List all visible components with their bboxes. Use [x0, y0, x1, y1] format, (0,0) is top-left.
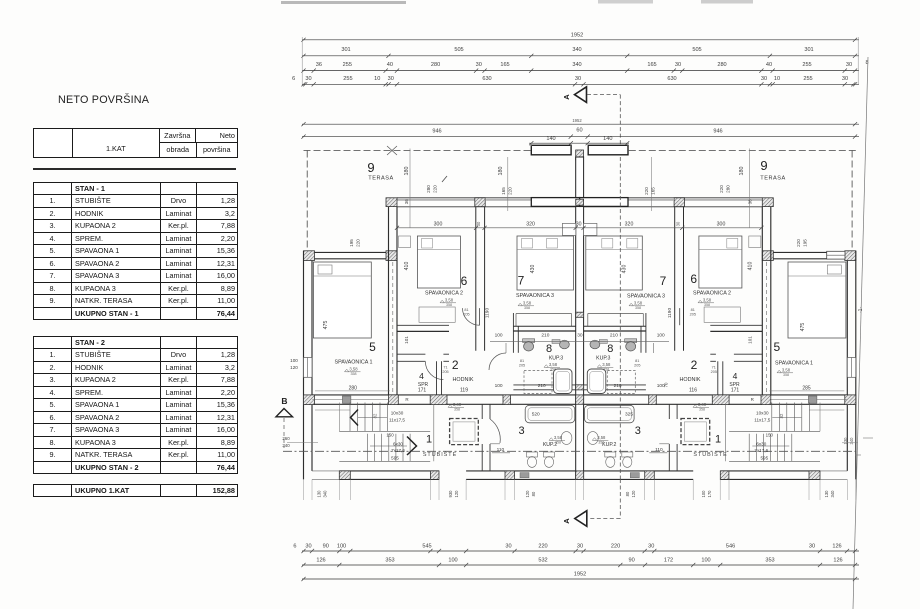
svg-text:205: 205 — [711, 370, 717, 374]
sheet fold line right — [853, 57, 868, 609]
party wall hatch at top wall junction — [576, 199, 584, 205]
svg-text:100: 100 — [701, 490, 706, 498]
svg-text:10: 10 — [374, 76, 380, 82]
svg-text:340: 340 — [849, 437, 854, 445]
chimney wing wall (left) — [531, 145, 571, 155]
svg-text:SPAVAONICA 1: SPAVAONICA 1 — [775, 361, 813, 367]
svg-text:TERASA: TERASA — [760, 176, 785, 182]
svg-text:HODNIK: HODNIK — [453, 377, 474, 383]
svg-text:520: 520 — [532, 412, 540, 418]
svg-text:220: 220 — [433, 185, 438, 193]
svg-text:205: 205 — [442, 370, 448, 374]
svg-text:280: 280 — [349, 385, 358, 391]
svg-text:1952: 1952 — [574, 571, 586, 577]
svg-text:946: 946 — [432, 129, 441, 135]
svg-text:80: 80 — [625, 491, 630, 496]
svg-text:R: R — [405, 397, 409, 402]
dashed centerline in room5/room6 wall — [392, 262, 394, 393]
svg-text:9: 9 — [367, 160, 374, 175]
svg-text:SPAVAONICA 3: SPAVAONICA 3 — [516, 293, 554, 299]
svg-text:120: 120 — [454, 490, 459, 498]
svg-text:8: 8 — [546, 343, 552, 355]
svg-text:30: 30 — [809, 543, 815, 549]
table STAN-1 — [33, 182, 238, 321]
svg-text:3,58: 3,58 — [634, 301, 643, 306]
svg-text:81: 81 — [464, 308, 468, 312]
svg-text:30: 30 — [675, 221, 680, 226]
svg-text:30: 30 — [476, 62, 482, 68]
svg-text:100: 100 — [337, 543, 346, 549]
svg-text:1190: 1190 — [667, 308, 673, 319]
svg-text:172: 172 — [664, 558, 673, 564]
svg-text:36: 36 — [404, 199, 409, 204]
SPR door arc — [425, 362, 443, 380]
dim extension near chimney — [507, 157, 509, 211]
svg-text:1: 1 — [715, 434, 721, 446]
svg-text:358: 358 — [550, 368, 556, 372]
room5 top wall — [304, 251, 315, 261]
svg-text:HODNIK: HODNIK — [680, 377, 701, 383]
svg-text:120: 120 — [525, 490, 530, 498]
svg-text:30: 30 — [476, 221, 481, 226]
wall room6 bottom / hall — [397, 324, 449, 326]
svg-text:2: 2 — [691, 358, 698, 372]
svg-text:3,48: 3,48 — [698, 402, 707, 407]
svg-text:1952: 1952 — [572, 118, 582, 123]
svg-text:7: 7 — [518, 274, 525, 288]
svg-text:7: 7 — [660, 274, 667, 288]
svg-text:475: 475 — [323, 321, 329, 330]
svg-text:7x17,6: 7x17,6 — [391, 448, 405, 453]
svg-text:505: 505 — [454, 47, 463, 53]
svg-text:3,58: 3,58 — [602, 362, 611, 367]
svg-text:6: 6 — [461, 274, 468, 288]
svg-text:8: 8 — [607, 343, 613, 355]
svg-text:358: 358 — [635, 306, 641, 310]
mid wall across unit — [312, 394, 576, 396]
svg-text:340: 340 — [323, 490, 328, 498]
party wall between units — [576, 157, 584, 479]
svg-text:6: 6 — [293, 543, 296, 549]
svg-text:430: 430 — [530, 265, 536, 274]
svg-text:430: 430 — [621, 265, 627, 274]
svg-text:30: 30 — [388, 76, 394, 82]
table STAN-2 — [33, 336, 238, 475]
bedside table room6 — [399, 236, 411, 248]
svg-text:630: 630 — [667, 76, 676, 82]
svg-text:532: 532 — [538, 558, 547, 564]
svg-text:300: 300 — [434, 222, 443, 228]
svg-text:126: 126 — [833, 558, 842, 564]
svg-text:3,58: 3,58 — [554, 435, 563, 440]
svg-text:210: 210 — [538, 383, 546, 389]
svg-text:81: 81 — [520, 359, 524, 363]
svg-text:255: 255 — [343, 62, 352, 68]
svg-text:165: 165 — [650, 187, 655, 195]
svg-text:171: 171 — [418, 388, 427, 394]
svg-text:119: 119 — [460, 388, 468, 394]
svg-text:180: 180 — [404, 167, 410, 176]
svg-text:81: 81 — [691, 308, 695, 312]
svg-text:30: 30 — [505, 543, 511, 549]
table title — [58, 94, 149, 106]
chimney wing wall (right) — [588, 145, 628, 155]
svg-text:301: 301 — [804, 47, 813, 53]
svg-text:220: 220 — [611, 543, 620, 549]
svg-text:280: 280 — [717, 62, 726, 68]
svg-text:3: 3 — [518, 425, 524, 437]
KUP.2 bidet — [544, 452, 555, 457]
svg-text:220: 220 — [538, 543, 547, 549]
section marker A (top) — [575, 87, 587, 103]
shaft / void square (dashed) — [450, 419, 479, 445]
svg-text:595: 595 — [391, 456, 399, 461]
top dim row end verticals — [301, 37, 303, 85]
svg-text:30: 30 — [305, 76, 311, 82]
svg-text:6x30: 6x30 — [393, 442, 403, 447]
stair upper flight treads — [349, 403, 351, 432]
svg-text:505: 505 — [692, 47, 701, 53]
svg-text:195: 195 — [802, 239, 807, 247]
thick separator — [33, 168, 236, 170]
svg-text:90: 90 — [628, 558, 634, 564]
stair right boundary — [433, 404, 435, 461]
svg-text:946: 946 — [713, 129, 722, 135]
window mullion block (grey) in room5 bottom wall — [342, 396, 351, 403]
KUP.2 window ticks — [520, 473, 529, 478]
svg-text:165: 165 — [501, 187, 506, 195]
top wall pillar at room6/7 — [475, 198, 485, 207]
svg-text:410: 410 — [747, 262, 753, 271]
svg-text:358: 358 — [351, 372, 357, 376]
KUP.3 left wall — [512, 313, 514, 353]
svg-text:205: 205 — [690, 313, 696, 317]
svg-text:220: 220 — [644, 187, 649, 195]
svg-text:1952: 1952 — [571, 32, 583, 38]
svg-text:1190: 1190 — [485, 308, 491, 319]
svg-text:320: 320 — [526, 222, 535, 228]
top wall pillar at room5/6 — [386, 198, 397, 207]
table header — [33, 128, 238, 158]
svg-text:STUBIŠTE: STUBIŠTE — [693, 451, 727, 458]
svg-text:301: 301 — [341, 47, 350, 53]
svg-text:11x17,5: 11x17,5 — [389, 418, 405, 423]
bed room6 — [417, 236, 460, 288]
svg-text:SPAVAONICA 2: SPAVAONICA 2 — [693, 291, 731, 297]
svg-text:325: 325 — [625, 412, 633, 418]
svg-text:100: 100 — [495, 383, 503, 389]
svg-text:280: 280 — [431, 62, 440, 68]
svg-text:280: 280 — [725, 185, 730, 193]
landing edge — [315, 409, 350, 411]
svg-text:1: 1 — [426, 434, 432, 446]
svg-text:320: 320 — [625, 222, 634, 228]
svg-text:220: 220 — [356, 239, 361, 247]
svg-text:205: 205 — [634, 364, 640, 368]
level mark embellishments — [442, 302, 456, 304]
svg-text:205: 205 — [519, 364, 525, 368]
wall hall / SPR — [397, 353, 425, 355]
svg-text:10: 10 — [774, 76, 780, 82]
svg-text:70: 70 — [663, 382, 668, 387]
door arc into KUP.2 — [490, 419, 500, 443]
svg-text:SPAVAONICA 3: SPAVAONICA 3 — [627, 294, 665, 300]
bed room7 — [517, 236, 574, 290]
svg-text:71: 71 — [443, 366, 447, 370]
dim extension line through terrace (left) — [409, 149, 411, 228]
KUP.2 sink — [561, 432, 572, 445]
survey X mark on terrace line — [387, 146, 397, 155]
window in side wall — [304, 358, 313, 378]
KUP.3 sink — [560, 340, 570, 349]
svg-text:210: 210 — [541, 332, 549, 338]
svg-text:30: 30 — [575, 76, 581, 82]
svg-text:3,58: 3,58 — [549, 362, 558, 367]
svg-text:2: 2 — [452, 358, 459, 372]
svg-text:126: 126 — [832, 543, 841, 549]
top wall thick segment under chimney — [531, 198, 579, 207]
door arc into KUP.3 (hall side) — [489, 353, 506, 370]
svg-text:210: 210 — [614, 383, 622, 389]
svg-text:630: 630 — [482, 76, 491, 82]
svg-text:358: 358 — [603, 368, 609, 372]
svg-text:116: 116 — [689, 388, 697, 394]
KUP.3 bottom wall — [513, 384, 575, 386]
svg-text:100: 100 — [495, 332, 503, 338]
KUP.3 toilet — [523, 339, 535, 343]
svg-text:210: 210 — [610, 332, 618, 338]
svg-text:165: 165 — [647, 62, 656, 68]
svg-text:4: 4 — [733, 371, 738, 381]
dim extension lines below wall — [303, 479, 305, 500]
svg-text:255: 255 — [803, 76, 812, 82]
bottom exterior wall — [339, 470, 439, 472]
svg-text:40: 40 — [766, 62, 772, 68]
svg-text:30: 30 — [675, 62, 681, 68]
svg-text:SPAVAONICA 1: SPAVAONICA 1 — [334, 360, 372, 366]
svg-text:180: 180 — [498, 167, 504, 176]
svg-text:358: 358 — [704, 303, 710, 307]
svg-text:60: 60 — [576, 128, 582, 134]
section marker A (bottom) — [575, 511, 587, 527]
scan smudge top-left — [281, 1, 406, 4]
svg-text:3,58: 3,58 — [703, 298, 712, 303]
svg-text:100: 100 — [290, 358, 298, 363]
SPR closet wall — [436, 361, 438, 395]
svg-text:353: 353 — [385, 558, 394, 564]
exterior side wall — [303, 251, 305, 480]
svg-text:4: 4 — [419, 371, 424, 381]
svg-text:358: 358 — [524, 306, 530, 310]
svg-text:36: 36 — [316, 62, 322, 68]
svg-text:3,48: 3,48 — [453, 402, 462, 407]
svg-text:90: 90 — [323, 543, 329, 549]
svg-text:195: 195 — [349, 239, 354, 247]
svg-text:150: 150 — [766, 433, 774, 438]
KUP.2 toilet — [527, 452, 538, 457]
svg-text:30: 30 — [577, 332, 583, 338]
KUP.3 bathtub — [554, 369, 573, 394]
svg-text:130: 130 — [824, 490, 829, 498]
svg-text:220: 220 — [508, 187, 513, 195]
svg-text:TERASA: TERASA — [368, 176, 393, 182]
svg-text:3,58: 3,58 — [597, 435, 606, 440]
svg-text:595: 595 — [760, 456, 768, 461]
svg-text:340: 340 — [830, 490, 835, 498]
svg-text:6: 6 — [690, 272, 697, 286]
svg-text:130: 130 — [843, 437, 848, 445]
svg-text:KUP.3: KUP.3 — [549, 356, 563, 362]
svg-text:165: 165 — [500, 62, 509, 68]
svg-text:40: 40 — [387, 62, 393, 68]
svg-text:9: 9 — [760, 158, 767, 173]
svg-text:150: 150 — [386, 433, 394, 438]
KUP.2 bathtub — [525, 405, 575, 423]
svg-text:140: 140 — [546, 136, 555, 142]
svg-text:3,58: 3,58 — [349, 367, 358, 372]
bedside table room7 — [562, 223, 575, 235]
svg-text:81: 81 — [635, 359, 639, 363]
svg-text:110: 110 — [655, 447, 663, 453]
svg-text:36: 36 — [747, 199, 752, 204]
svg-text:A: A — [562, 518, 571, 524]
wardrobe row room7 — [516, 313, 572, 315]
svg-text:-1-: -1- — [858, 307, 864, 313]
svg-text:280: 280 — [426, 185, 431, 193]
svg-text:930: 930 — [448, 490, 453, 498]
svg-text:358: 358 — [446, 303, 452, 307]
svg-text:30: 30 — [846, 62, 852, 68]
svg-text:260: 260 — [282, 436, 290, 441]
svg-text:101: 101 — [404, 336, 409, 344]
stair up-arrow — [351, 410, 359, 426]
svg-text:170: 170 — [707, 490, 712, 498]
pencil tick mark — [442, 176, 447, 182]
top wall: glazing band — [397, 198, 476, 201]
section line B (dash-dot) — [283, 450, 858, 452]
svg-text:475: 475 — [800, 323, 806, 332]
svg-text:358: 358 — [783, 373, 789, 377]
window centerline in room5 bottom wall — [312, 399, 389, 401]
B dashed stem — [283, 418, 285, 448]
porch edge thin lines — [312, 470, 339, 472]
svg-text:82: 82 — [372, 413, 377, 418]
svg-text:410: 410 — [404, 262, 410, 271]
svg-text:300: 300 — [717, 222, 726, 228]
svg-text:5: 5 — [369, 340, 376, 354]
stair lower flight treads — [367, 434, 369, 462]
dim 280 line — [315, 390, 390, 392]
terrace 9 dashed boundary (left) — [304, 150, 532, 152]
total row — [33, 484, 238, 498]
svg-text:30: 30 — [648, 543, 654, 549]
wall between rooms 6 and 7 — [475, 207, 477, 351]
svg-text:10x30: 10x30 — [756, 411, 769, 416]
svg-text:A: A — [562, 94, 571, 100]
door arc into room6 — [462, 308, 479, 325]
svg-text:120: 120 — [631, 490, 636, 498]
window in right room5 top wall — [827, 251, 845, 259]
svg-text:120: 120 — [290, 365, 298, 370]
wall room5/hall — [388, 207, 390, 395]
svg-text:340: 340 — [572, 47, 581, 53]
desk in room6 — [419, 307, 455, 322]
bed room5 — [313, 262, 371, 338]
svg-text:B: B — [281, 396, 287, 406]
stair down-arrow — [407, 437, 417, 456]
chimney flue (hatched) — [576, 150, 584, 160]
svg-text:100: 100 — [448, 558, 457, 564]
svg-text:255: 255 — [802, 62, 811, 68]
svg-text:82: 82 — [779, 413, 784, 418]
svg-text:180: 180 — [739, 167, 745, 176]
svg-text:340: 340 — [282, 443, 290, 448]
svg-text:353: 353 — [765, 558, 774, 564]
svg-text:130: 130 — [317, 490, 322, 498]
svg-text:100: 100 — [701, 558, 710, 564]
svg-text:5: 5 — [774, 340, 781, 354]
svg-text:3,58: 3,58 — [523, 301, 532, 306]
svg-text:358: 358 — [454, 408, 460, 412]
svg-text:110: 110 — [497, 447, 505, 453]
svg-text:6: 6 — [292, 76, 295, 82]
svg-text:126: 126 — [316, 558, 325, 564]
svg-text:R: R — [751, 397, 755, 402]
svg-text:80: 80 — [531, 491, 536, 496]
svg-text:140: 140 — [603, 136, 612, 142]
section line A (dashed, through plan) — [619, 157, 621, 479]
svg-text:358: 358 — [699, 408, 705, 412]
svg-text:7x17,6: 7x17,6 — [754, 448, 768, 453]
svg-text:30: 30 — [842, 76, 848, 82]
svg-text:30: 30 — [761, 76, 767, 82]
svg-text:SPAVAONICA 2: SPAVAONICA 2 — [425, 291, 463, 297]
section line A (dashed, top) — [587, 94, 620, 96]
chimney dim extension stubs — [530, 143, 532, 146]
svg-text:220: 220 — [719, 185, 724, 193]
svg-text:11x17,5: 11x17,5 — [754, 418, 770, 423]
svg-text:6x30: 6x30 — [756, 442, 766, 447]
svg-text:205: 205 — [463, 313, 469, 317]
svg-text:171: 171 — [731, 388, 740, 394]
svg-text:545: 545 — [422, 543, 431, 549]
svg-text:3: 3 — [635, 425, 641, 437]
svg-text:546: 546 — [726, 543, 735, 549]
svg-text:358: 358 — [555, 441, 561, 445]
svg-text:30: 30 — [305, 543, 311, 549]
svg-text:KUP.3: KUP.3 — [596, 356, 610, 362]
svg-text:STUBIŠTE: STUBIŠTE — [423, 451, 457, 458]
svg-text:101: 101 — [747, 336, 752, 344]
svg-text:3,58: 3,58 — [445, 298, 454, 303]
svg-text:10x30: 10x30 — [391, 411, 404, 416]
KUP.3 top wall — [513, 325, 575, 327]
svg-text:255: 255 — [343, 76, 352, 82]
svg-text:71: 71 — [712, 366, 716, 370]
svg-text:100: 100 — [657, 332, 665, 338]
svg-text:358: 358 — [598, 441, 604, 445]
wall stairs / KUP.2 — [481, 404, 483, 419]
svg-text:220: 220 — [796, 239, 801, 247]
svg-text:3,58: 3,58 — [782, 368, 791, 373]
svg-text:285: 285 — [802, 385, 811, 391]
svg-text:30: 30 — [577, 543, 583, 549]
svg-text:340: 340 — [572, 62, 581, 68]
KUP.3 shower dashed — [524, 371, 552, 394]
